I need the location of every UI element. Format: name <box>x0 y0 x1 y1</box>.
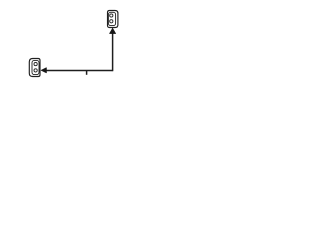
arrowhead up <box>109 28 115 34</box>
pin hole bottom <box>34 69 37 72</box>
wire: vertical segment <box>112 33 114 71</box>
pin hole top <box>34 62 37 65</box>
pin hole top <box>110 14 113 17</box>
node A (left socket icon) <box>29 59 40 77</box>
outer body <box>29 59 40 77</box>
tick on wire <box>86 71 88 75</box>
arrowhead left <box>41 68 47 73</box>
outer body <box>108 11 118 28</box>
node B (right socket icon) <box>108 11 118 28</box>
pin hole bottom <box>110 20 113 23</box>
inner inset line <box>32 60 39 74</box>
wire: horizontal segment <box>46 70 112 72</box>
background <box>0 0 150 87</box>
inner inset line <box>108 12 115 25</box>
